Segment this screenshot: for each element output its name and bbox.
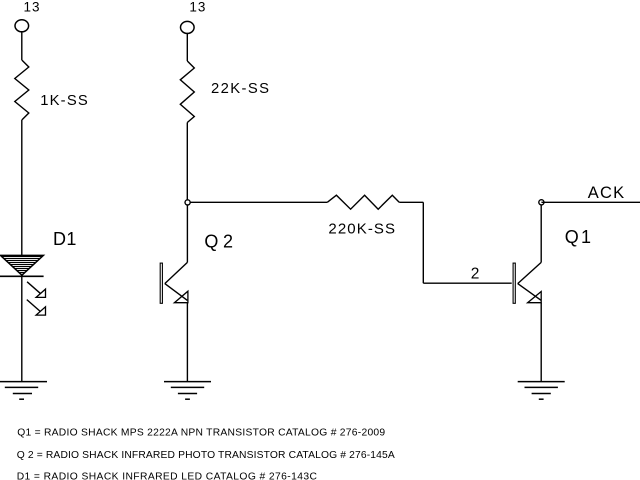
wire: junction to Q2 collector bbox=[186, 205, 188, 262]
svg-text:Q 2 = RADIO SHACK INFRARED PHO: Q 2 = RADIO SHACK INFRARED PHOTO TRANSIS… bbox=[17, 450, 395, 461]
LED D1 anode triangle bbox=[1, 255, 44, 275]
LED D1 cathode bar bbox=[0, 275, 44, 277]
transistor Q1 emitter arrow bbox=[528, 292, 542, 303]
transistor Q2 collector lead bbox=[165, 262, 188, 283]
svg-text:ACK: ACK bbox=[588, 184, 626, 202]
wire: D1 cathode to ground bbox=[21, 276, 23, 381]
wire: corner to Q1 base bbox=[423, 282, 511, 284]
resistor R1 bbox=[15, 60, 29, 120]
wire: Q2 emitter to ground bbox=[186, 303, 188, 382]
svg-text:22K-SS: 22K-SS bbox=[211, 81, 270, 97]
ground (Q2 branch) bbox=[164, 382, 211, 400]
wire: R2 to junction node bbox=[186, 123, 188, 201]
transistor Q1 emitter lead bbox=[518, 284, 542, 301]
junction node (R2 / Q2 collector / R3) bbox=[185, 200, 190, 205]
svg-text:2: 2 bbox=[471, 265, 480, 282]
wire: corner down bbox=[422, 202, 424, 283]
transistor Q1 collector lead bbox=[518, 262, 542, 283]
resistor R3 bbox=[327, 195, 399, 209]
wire: junction to R3 bbox=[190, 201, 327, 203]
junction node (Q1 collector / ACK) bbox=[539, 200, 544, 205]
wire: node to Q1 collector bbox=[540, 205, 542, 263]
LED D1 emission arrow 2 bbox=[27, 300, 46, 316]
wire: R1 to D1 anode bbox=[21, 120, 23, 255]
wire: R3 to corner bbox=[399, 201, 423, 203]
svg-text:Q1: Q1 bbox=[565, 227, 593, 247]
terminal circle node 13 (right) bbox=[181, 21, 195, 33]
wire: node 13 to R2 bbox=[186, 33, 188, 61]
svg-text:Q2: Q2 bbox=[204, 232, 237, 252]
svg-text:D1: D1 bbox=[53, 229, 77, 249]
svg-text:Q1 = RADIO SHACK MPS 2222A NP: Q1 = RADIO SHACK MPS 2222A NPN TRANSISTO… bbox=[17, 428, 385, 439]
svg-text:13: 13 bbox=[24, 0, 41, 15]
transistor Q2 base bar bbox=[160, 263, 162, 303]
wire: node 13 to R1 bbox=[21, 32, 23, 60]
svg-text:1K-SS: 1K-SS bbox=[40, 93, 89, 109]
svg-text:13: 13 bbox=[189, 0, 206, 15]
ground (Q1 branch) bbox=[518, 382, 565, 400]
svg-text:D1 = RADIO SHACK INFRARED LED: D1 = RADIO SHACK INFRARED LED CATALOG # … bbox=[17, 472, 318, 480]
LED D1 emission arrow 1 bbox=[27, 282, 45, 298]
transistor Q1 base bar bbox=[513, 263, 515, 303]
wire: Q1 emitter to ground bbox=[540, 303, 542, 382]
transistor Q2 emitter arrow bbox=[174, 291, 188, 303]
resistor R2 bbox=[180, 61, 194, 123]
wire: Q1 collector node to ACK (right edge) bbox=[541, 201, 640, 203]
terminal circle node 13 (left) bbox=[15, 20, 29, 32]
transistor Q2 emitter lead bbox=[165, 284, 188, 301]
ground (D1 branch) bbox=[0, 382, 47, 400]
svg-text:220K-SS: 220K-SS bbox=[328, 221, 396, 238]
